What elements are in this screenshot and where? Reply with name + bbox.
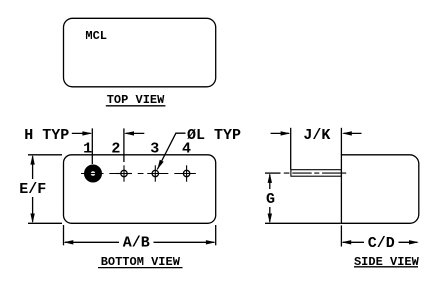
svg-text:J/K: J/K xyxy=(303,127,330,144)
pin 3 xyxy=(147,165,163,181)
side view lead xyxy=(291,170,342,177)
svg-text:ØL TYP: ØL TYP xyxy=(187,127,241,144)
svg-text:BOTTOM VIEW: BOTTOM VIEW xyxy=(101,255,181,269)
E/F bottom extension line xyxy=(28,222,62,224)
pin 4 xyxy=(179,165,195,181)
svg-text:C/D: C/D xyxy=(368,235,395,252)
extension line pin 1 xyxy=(91,128,93,164)
J/K left arrow xyxy=(271,131,291,135)
G top extension line xyxy=(265,172,281,174)
svg-text:MCL: MCL xyxy=(85,29,107,43)
TOP VIEW underline xyxy=(106,105,166,107)
A/B dimension line left xyxy=(64,240,120,244)
svg-text:TOP VIEW: TOP VIEW xyxy=(107,93,165,107)
J/K right extension line xyxy=(340,128,342,155)
J/K right arrow xyxy=(342,131,362,135)
E/F top extension line xyxy=(28,154,62,156)
G bottom extension line xyxy=(265,222,341,224)
svg-text:1: 1 xyxy=(83,141,92,158)
svg-text:E/F: E/F xyxy=(19,181,46,198)
C/D dimension line left xyxy=(341,240,364,244)
pin center line (dash-dot) xyxy=(81,173,196,175)
bottom view body outline xyxy=(64,155,216,224)
E/F dimension line upper xyxy=(30,155,34,179)
SIDE VIEW underline xyxy=(354,266,418,268)
pin 2 xyxy=(116,165,132,181)
G dimension line lower xyxy=(268,207,272,223)
top view body outline xyxy=(64,18,216,87)
A/B left extension line xyxy=(63,225,65,245)
side view body outline xyxy=(341,155,418,224)
dimension H TYP left arrow xyxy=(72,131,92,135)
A/B dimension line right xyxy=(154,240,216,244)
extension line pin 2 xyxy=(123,128,125,162)
C/D dimension line right xyxy=(399,240,419,244)
J/K left extension line xyxy=(290,128,292,170)
svg-text:3: 3 xyxy=(150,141,159,158)
pin 1 (filled index pin) xyxy=(84,165,102,183)
BOTTOM VIEW underline xyxy=(98,267,183,269)
svg-text:H TYP: H TYP xyxy=(24,127,69,144)
E/F dimension line lower xyxy=(30,197,34,223)
C/D left extension line xyxy=(340,225,342,246)
lead center line (dash-dot) xyxy=(284,172,346,174)
dimension H TYP right arrow xyxy=(124,131,144,135)
svg-text:A/B: A/B xyxy=(123,234,150,251)
G dimension line upper xyxy=(268,173,272,189)
leader line to pin 3 xyxy=(157,133,185,169)
A/B right extension line xyxy=(215,225,217,245)
svg-text:2: 2 xyxy=(111,141,120,158)
svg-text:G: G xyxy=(266,191,275,208)
